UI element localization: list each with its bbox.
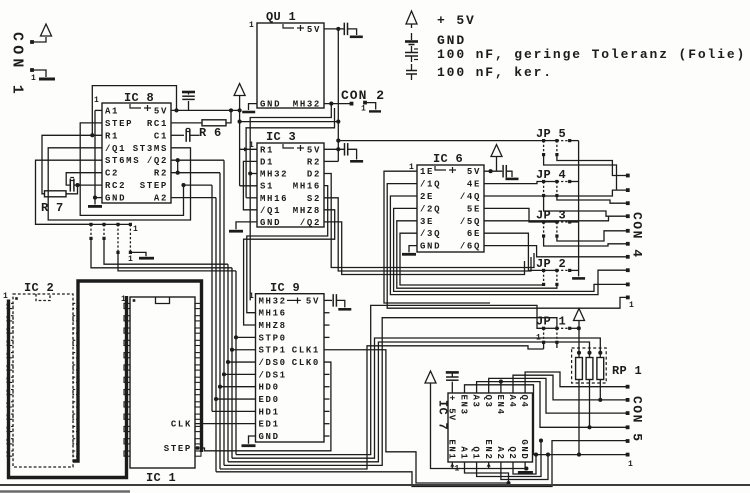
wire IC8 C2 to cap (66, 173, 102, 185)
wire IC6 GND (409, 246, 417, 253)
wire IC8 ST6MS to jumper row (36, 160, 103, 224)
wire RP right to CON5 pin2 (599, 380, 601, 400)
svg-text:EN1: EN1 (446, 439, 456, 460)
resistor R7 (45, 191, 67, 197)
svg-text:/5Q: /5Q (460, 217, 481, 227)
wire spare loop (246, 108, 334, 198)
wire IC7 A2 loop (501, 455, 548, 480)
svg-text:2E: 2E (420, 192, 434, 202)
IC1 pin stubs (124, 303, 130, 308)
wire JP5 out to CON4 pin1 (557, 155, 628, 176)
svg-text:D2: D2 (307, 170, 321, 180)
wire jumper out 4 to ground (130, 252, 146, 256)
svg-text:1E: 1E (420, 167, 434, 177)
svg-text:1: 1 (249, 292, 254, 301)
wire IC8 R1 to R7 (42, 135, 102, 194)
svg-text:ST3MS: ST3MS (133, 144, 168, 154)
svg-text:C1: C1 (154, 131, 168, 141)
svg-text:GND: GND (259, 432, 280, 442)
svg-text:A2: A2 (154, 194, 168, 204)
wire IC3 MH32 stub (250, 173, 257, 175)
svg-text:STEP: STEP (105, 119, 133, 129)
wire IC9 CLK1 out (324, 350, 509, 483)
svg-text:MH16: MH16 (259, 309, 287, 319)
svg-text:A1: A1 (459, 446, 469, 460)
svg-text:CLK: CLK (171, 420, 192, 430)
wire +5V to RP1 (578, 321, 580, 353)
svg-text:3E: 3E (420, 217, 434, 227)
svg-text:100 nF, geringe Toleranz (Foli: 100 nF, geringe Toleranz (Folie) (437, 47, 746, 62)
wire IC6 2E (390, 196, 627, 295)
wire IC7 Q4 to CON5 pin1 (525, 372, 628, 393)
ground at IC3 (229, 230, 243, 233)
wire IC8 STEP-R to bus (184, 184, 213, 186)
svg-text:R2: R2 (307, 157, 321, 167)
svg-text:JP 4: JP 4 (536, 168, 566, 182)
svg-text:/Q2: /Q2 (147, 156, 168, 166)
svg-text:GND: GND (260, 100, 281, 110)
jumper dashed links (90, 224, 92, 238)
wire EN1 tap (451, 462, 453, 469)
ground at IC6 cap (506, 178, 519, 181)
svg-text:/DS1: /DS1 (259, 370, 287, 380)
wire R6 to 5V rail (226, 110, 231, 123)
wire RP mid to CON5 pin4 (589, 380, 591, 428)
svg-text:STP0: STP0 (259, 333, 287, 343)
ground at QU1 (242, 111, 255, 114)
svg-text:JP 5: JP 5 (536, 127, 566, 141)
bottom bus lines (236, 305, 544, 454)
wire JP1 common to +5V stem (577, 326, 581, 330)
svg-text:1: 1 (361, 105, 366, 114)
svg-text:HD0: HD0 (259, 383, 280, 393)
power +5V at IC7 (425, 371, 436, 383)
decoupling cap at IC6 (ker) (502, 165, 504, 178)
wire CON1 pinB to GND (32, 70, 46, 77)
svg-text:GND: GND (437, 33, 466, 48)
svg-text:1: 1 (249, 21, 254, 30)
wire IC1 CLK to IC9 ED1 (195, 423, 256, 425)
wire IC7 A1 loop (465, 462, 509, 483)
svg-text:ED1: ED1 (259, 420, 280, 430)
ground at IC8 (94, 198, 96, 205)
svg-text:R1: R1 (260, 145, 274, 155)
wire IC6 /3Q (400, 233, 544, 285)
scan border bottom (0, 484, 750, 486)
wire QU1 5V (324, 28, 344, 30)
wire +5V rail below IC7 (431, 383, 527, 469)
CON5 pins (626, 385, 630, 389)
wire IC6 3E (397, 221, 557, 288)
bus vertical to HD1 (211, 185, 213, 411)
wire IC3 5V (324, 148, 345, 150)
svg-text:STP1: STP1 (259, 346, 287, 356)
wire IC7 Q1 loop (477, 441, 541, 477)
wire IC3 R2 to 5V (324, 160, 338, 162)
svg-text:IC 8: IC 8 (124, 91, 154, 105)
wire IC3 D1 to /Q1 (243, 161, 257, 209)
ground at IC3 cap (350, 160, 363, 163)
ground at CON1 (39, 78, 55, 81)
wire IC8 5V loop to R1 (92, 86, 176, 136)
wire IC3 S2 out (324, 198, 531, 271)
svg-text:D1: D1 (260, 157, 274, 167)
ground at IC6 (402, 253, 416, 256)
wire IC8 A2 to bus (171, 197, 216, 199)
wire +5V vertical to R1/S1 (239, 96, 241, 186)
svg-text:1: 1 (31, 74, 36, 83)
wire IC8 5V pin to rail (171, 109, 240, 111)
wire IC8 GND pin (95, 197, 102, 199)
IC8 power notch (130, 104, 141, 108)
svg-text:STEP: STEP (140, 181, 168, 191)
power +5V at IC6 (491, 145, 502, 157)
wire IC6 5E to JP3 (484, 208, 544, 222)
svg-text:IC 6: IC 6 (433, 152, 463, 166)
svg-text:RP 1: RP 1 (612, 364, 642, 378)
svg-text:/Q2: /Q2 (300, 218, 321, 228)
wire IC7 EN4 join (500, 382, 502, 393)
svg-text:5V: 5V (307, 145, 321, 155)
op IC3 box (257, 143, 324, 227)
svg-text:IC 2: IC 2 (24, 281, 54, 295)
decoupling cap at IC9 (ker) (332, 294, 334, 307)
wire CON2 pin1 to GND (365, 103, 376, 110)
wire R7 to RC2 node (66, 185, 78, 194)
svg-text:MH32: MH32 (259, 296, 287, 306)
wire IC7 A3 to CON5 pin4 (477, 382, 628, 428)
resistor R6 (202, 120, 226, 126)
CON4 pins (626, 174, 630, 178)
wire IC6 /2Q (394, 208, 628, 291)
svg-text:MH32: MH32 (293, 100, 321, 110)
capacitor C at RC2 (film) (74, 184, 102, 186)
wire +5V crossover (240, 121, 339, 123)
op IC9 box (256, 294, 325, 442)
IC1 notch (156, 297, 170, 304)
svg-text:A3: A3 (471, 395, 481, 409)
wire IC6 1E (384, 171, 490, 303)
svg-text:/1Q: /1Q (420, 180, 441, 190)
svg-text:R2: R2 (154, 169, 168, 179)
ground at IC9 (242, 444, 256, 447)
wire IC8 C1 to cap (171, 134, 184, 136)
svg-text:/DS0: /DS0 (259, 358, 287, 368)
wire QU1 GND pin (249, 104, 258, 110)
op IC8 box (102, 103, 171, 203)
svg-text:5V: 5V (467, 167, 481, 177)
svg-text:IC 9: IC 9 (270, 281, 300, 295)
wire IC6 6E to JP2 (484, 233, 544, 270)
IC9 right stubs (324, 312, 330, 314)
bus verticals to IC9 and bottom bus (235, 271, 237, 455)
thick trace IC2 to IC1 clock (73, 281, 202, 461)
ground at CON2 (369, 110, 381, 112)
wire JP3 out to CON4 pin6 (544, 236, 628, 246)
CON2 pin 1 (363, 101, 367, 105)
svg-text:Q1: Q1 (471, 446, 481, 460)
svg-text:CON 1: CON 1 (9, 32, 26, 98)
svg-text:S2: S2 (307, 194, 321, 204)
svg-text:ST6MS: ST6MS (105, 156, 140, 166)
wire +5V into IC3 R1 (240, 148, 257, 150)
wire JP3 out to CON4 pin5 (557, 231, 628, 241)
wire JP5 feed from +5V (338, 140, 543, 142)
svg-text:A2: A2 (495, 446, 505, 460)
wire IC3 /Q2 out (324, 222, 525, 275)
svg-text:CON 4: CON 4 (630, 212, 645, 259)
svg-text:JP 3: JP 3 (536, 208, 566, 222)
svg-text:1: 1 (128, 255, 133, 264)
wire IC7 EN2 tap (488, 462, 490, 469)
RP1 resistors (576, 358, 583, 380)
wire JP4 out to CON4 pin4 (544, 196, 628, 217)
svg-text:MHZ8: MHZ8 (259, 321, 287, 331)
svg-text:R1: R1 (105, 131, 119, 141)
svg-text:Q4: Q4 (519, 395, 529, 409)
svg-text:IC 3: IC 3 (266, 130, 296, 144)
latch IC7 box (448, 393, 533, 462)
svg-text:C2: C2 (105, 169, 119, 179)
svg-text:1: 1 (629, 301, 634, 310)
svg-text:+ 5V: + 5V (447, 395, 457, 421)
svg-text:MHZ8: MHZ8 (293, 206, 321, 216)
wire IC6 4E to JP4 (484, 182, 544, 184)
wire jumper out 1 (91, 238, 232, 267)
wire CON1 pinA to +5V (32, 37, 46, 42)
svg-text:/6Q: /6Q (460, 242, 481, 252)
jumper common vertical to ground (578, 141, 580, 277)
CON 1 pin B (1) (30, 68, 34, 72)
power symbol +5V (legend) (406, 11, 417, 24)
power +5V at CON1 (41, 24, 52, 36)
CON2 pin A (350, 102, 354, 106)
svg-text:5E: 5E (467, 204, 481, 214)
wire jumper out 3 (118, 252, 236, 271)
svg-text:/Q1: /Q1 (105, 144, 126, 154)
wire jumper out 2 (104, 238, 228, 264)
svg-text:JP 1: JP 1 (536, 315, 566, 329)
svg-text:MH16: MH16 (260, 194, 288, 204)
net +5V vertical from QU1 (337, 29, 339, 162)
svg-text:HD1: HD1 (259, 407, 280, 417)
svg-text:Q3: Q3 (483, 395, 493, 409)
CON 1 pin A (30, 40, 34, 44)
IC6 power notch (435, 166, 446, 170)
ground at jumper (139, 257, 154, 260)
svg-text:5V: 5V (306, 296, 320, 306)
svg-text:5V: 5V (154, 106, 168, 116)
wire IC9 5V (324, 299, 332, 301)
wire IC3 GND (236, 222, 257, 229)
capacitor C1 (film) (185, 129, 187, 142)
cpu IC1 box (130, 297, 195, 468)
wire IC8 /Q1 - ST3MS loop (48, 148, 190, 220)
svg-text:1: 1 (94, 96, 99, 105)
svg-text:/3Q: /3Q (420, 229, 441, 239)
wire IC3 MH16 out (247, 186, 328, 313)
wire IC9 GND (249, 436, 256, 444)
svg-text:CLK0: CLK0 (292, 358, 320, 368)
wire IC8 /Q2 tie to R2 and bus (171, 159, 224, 161)
decoupling cap at IC3 (ker) (344, 143, 346, 156)
wire IC7 GND (524, 462, 526, 470)
svg-text:1: 1 (628, 460, 633, 469)
resistor network RP1 box (dashed) (572, 348, 607, 383)
wire IC7 EN3 to CON5 pin6 (465, 385, 628, 455)
wire IC6 5V (484, 170, 502, 172)
thick trace IC2 to IC1 pin1 (9, 296, 127, 478)
ground at IC9 cap (338, 308, 351, 311)
svg-text:4E: 4E (467, 180, 481, 190)
svg-text:100 nF, ker.: 100 nF, ker. (437, 65, 553, 80)
svg-text:Q2: Q2 (507, 446, 517, 460)
wire +5V into IC3 S1 (240, 185, 257, 187)
svg-text:1: 1 (536, 334, 541, 343)
svg-text:IC 1: IC 1 (146, 471, 176, 485)
wire IC8 STEP feedback loop (80, 123, 183, 215)
svg-text:GND: GND (260, 218, 281, 228)
QU1 power notch (283, 24, 294, 28)
crystal oscillator QU1 box (257, 23, 324, 108)
IC9 power notch (287, 299, 294, 301)
wire IC6 /5Q to CON4 (484, 216, 609, 221)
svg-text:MH32: MH32 (260, 170, 288, 180)
ground symbol GND (legend) (411, 33, 413, 40)
svg-text:R 7: R 7 (41, 201, 64, 215)
svg-text:S1: S1 (260, 182, 274, 192)
svg-text:5V: 5V (307, 25, 321, 35)
svg-text:STEP: STEP (164, 444, 192, 454)
power +5V at JP1 (574, 309, 585, 321)
svg-text:A1: A1 (105, 106, 119, 116)
wire IC8 A1 to GND rail (95, 109, 102, 111)
wire IC7 A4 to CON5 pin2 (513, 375, 628, 400)
wire IC7 Q2 loop (513, 455, 536, 474)
wire MH32 branch down (250, 104, 331, 301)
ground at IC7 (518, 471, 533, 474)
wire JP5 out to CON4 pin2 (544, 155, 617, 191)
svg-text:CON 2: CON 2 (341, 88, 385, 103)
decoupling cap at IC8 5V (188, 101, 190, 110)
decoupling cap at IC7 (ker) (451, 382, 453, 393)
svg-text:MH16: MH16 (293, 182, 321, 192)
svg-text:/2Q: /2Q (420, 204, 441, 214)
svg-text:RC1: RC1 (147, 119, 168, 129)
wire QU1 MH32 out (324, 103, 352, 105)
svg-text:QU 1: QU 1 (266, 10, 296, 24)
svg-text:+ 5V: + 5V (437, 13, 476, 28)
svg-text:CON 5: CON 5 (630, 396, 645, 443)
wire IC6 /1Q (387, 184, 628, 309)
svg-text:GND: GND (105, 194, 126, 204)
svg-text:EN4: EN4 (495, 395, 505, 416)
svg-text:EN3: EN3 (459, 395, 469, 416)
svg-text:GND: GND (420, 242, 441, 252)
wire IC3 D2 out (324, 174, 534, 268)
wire IC7 Q3 to CON5 pin3 (489, 378, 628, 413)
wire IC1 STEP to IC9 CLK0 (195, 362, 331, 451)
memory IC2 box (dashed) (13, 294, 73, 467)
wire RP left to CON5 pin6 (578, 380, 580, 455)
svg-text:JP 2: JP 2 (536, 257, 566, 271)
IC2 notch (36, 294, 50, 301)
JP1 bottom leads (543, 342, 545, 349)
svg-text:1: 1 (249, 141, 254, 150)
IC3 power notch (283, 144, 294, 148)
wire JP4 out to CON4 pin3 (557, 196, 628, 204)
power +5V near IC3 (234, 84, 245, 96)
decoupling cap at QU1 (ker) (343, 23, 345, 36)
svg-text:GND: GND (519, 439, 529, 460)
svg-text:A4: A4 (507, 395, 517, 409)
wire IC8 RC1 to R6 (171, 122, 202, 124)
ground at QU1 cap (350, 35, 363, 38)
svg-text:EN2: EN2 (483, 439, 493, 460)
buffer IC6 box (417, 165, 484, 252)
svg-text:1: 1 (133, 225, 138, 234)
capacitor legend 100nF film (411, 46, 413, 52)
wire IC8 R2 to bus (171, 172, 220, 174)
svg-text:/Q1: /Q1 (260, 206, 281, 216)
IC2 pin stubs (7, 303, 13, 308)
svg-text:R 6: R 6 (199, 126, 222, 140)
svg-text:RC2: RC2 (105, 181, 126, 191)
svg-text:CLK1: CLK1 (292, 346, 320, 356)
svg-text:ED0: ED0 (259, 395, 280, 405)
wire IC6 /6Q to CON4 (484, 246, 628, 257)
jumper header row (36, 223, 131, 225)
svg-text:/4Q: /4Q (460, 192, 481, 202)
svg-text:6E: 6E (467, 229, 481, 239)
wire IC6 /4Q to CON4 (484, 190, 628, 196)
ground at JP2 (572, 277, 585, 280)
wire IC3 MHZ8 out (244, 210, 335, 325)
capacitor legend 100nF ceramic (411, 64, 413, 70)
